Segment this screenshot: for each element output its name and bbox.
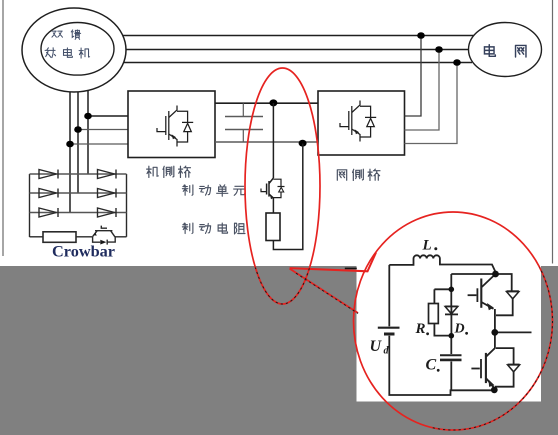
svg-text:C: C bbox=[426, 357, 437, 374]
svg-text:D: D bbox=[454, 321, 465, 336]
svg-text:L: L bbox=[422, 238, 432, 254]
svg-text:U: U bbox=[370, 338, 383, 355]
svg-text:Crowbar: Crowbar bbox=[52, 242, 115, 261]
svg-text:R: R bbox=[415, 321, 426, 337]
